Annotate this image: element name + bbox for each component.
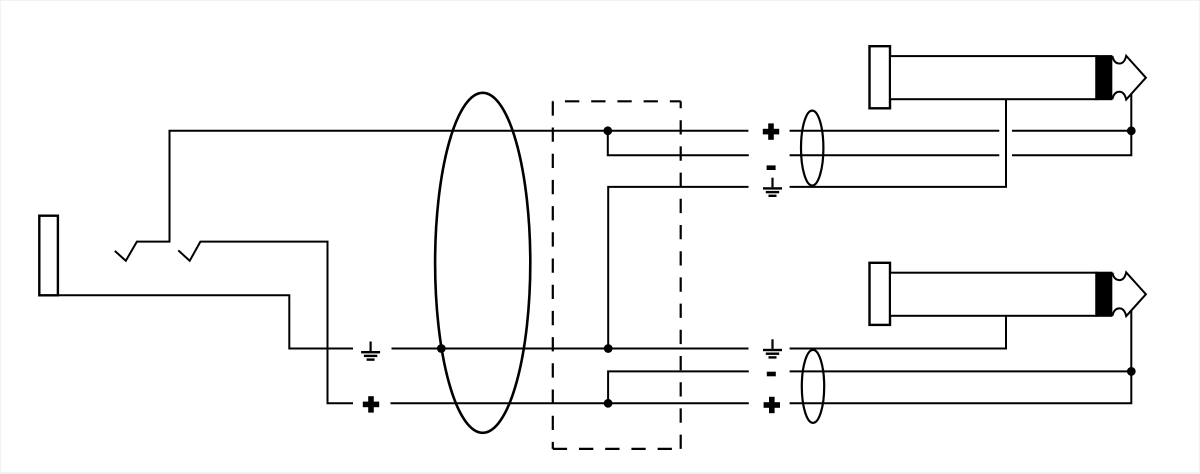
page border bottom xyxy=(0,472,1200,474)
junction dot: tip/minus split top xyxy=(603,126,612,135)
wire: plus line bottom to P2 tip xyxy=(790,311,1132,404)
page border right xyxy=(1199,0,1200,474)
plug P2 cap xyxy=(870,263,891,325)
wire: ground line top to P1 sleeve xyxy=(790,99,1006,187)
ground symbol left xyxy=(361,342,380,361)
junction dot: shield split xyxy=(604,344,613,353)
plug P1 barrel xyxy=(890,56,1096,99)
plug P2 barrel xyxy=(890,273,1096,316)
label: plus bottom right xyxy=(764,397,780,413)
wire: plus line bottom, label to split junction xyxy=(391,402,749,404)
cable outer jacket ellipse xyxy=(435,93,530,433)
wire: minus line top joining P1 tip vertical xyxy=(1012,94,1131,156)
wire: minus branch bottom from plus junction xyxy=(608,371,749,403)
label: minus top right xyxy=(767,165,776,170)
wire: minus branch top from junction xyxy=(608,131,749,156)
wire: minus line bottom to P2 tip junction xyxy=(790,370,1132,372)
junction dot: P1 tip node xyxy=(1127,126,1136,135)
ground symbol top right xyxy=(763,178,782,197)
wire: plus line top, hop to tip junction of P1 xyxy=(1012,130,1131,132)
pair jacket ellipse bottom xyxy=(802,350,824,423)
wire: minus line top, label to sleeve-wire hop xyxy=(790,154,1000,156)
junction dot: shield at cable ellipse xyxy=(437,344,446,353)
plug P1 insulator band xyxy=(1095,55,1112,100)
jack socket J1 body xyxy=(39,216,58,296)
pair jacket ellipse top xyxy=(801,111,823,186)
wire: shield line from left ground label through cable ellipse to split box xyxy=(392,348,749,350)
wire: plus line top, label to sleeve-wire hop xyxy=(790,130,1000,132)
page border top xyxy=(0,0,1200,1)
label: plus left xyxy=(363,396,379,412)
wire: J1 ring spring contact down and to left plus label xyxy=(178,242,353,404)
splitter dashed box right edge xyxy=(680,101,682,449)
plug P2 tip xyxy=(1112,272,1146,316)
ground symbol bottom right xyxy=(763,339,782,358)
wire: J1 tip spring contact and tip line to split xyxy=(115,131,749,261)
splitter dashed box left edge xyxy=(552,101,554,449)
plug P1 cap xyxy=(870,46,891,108)
junction dot: P2 tip node xyxy=(1127,367,1136,376)
junction dot: ring/minus split bottom xyxy=(604,399,613,408)
wire: shield line to P2 sleeve xyxy=(790,316,1006,349)
wire: J1 sleeve to left ground label xyxy=(59,295,354,348)
label: minus bottom right xyxy=(767,372,776,377)
wire: ground branch top with long vertical to shield junction xyxy=(608,187,748,349)
splitter dashed box top edge xyxy=(553,100,681,102)
page border left xyxy=(0,0,1,474)
plug P1 tip xyxy=(1112,56,1146,100)
plug P2 insulator band xyxy=(1095,272,1112,317)
label: plus top right xyxy=(763,123,779,139)
splitter dashed box bottom edge xyxy=(553,448,681,450)
